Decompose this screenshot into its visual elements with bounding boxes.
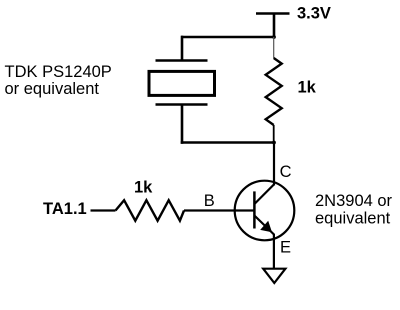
svg-text:E: E <box>280 239 291 257</box>
svg-text:C: C <box>280 163 292 181</box>
wire top branch to piezo <box>181 36 275 39</box>
piezo buzzer PZ1 top plate <box>156 59 208 62</box>
transistor Q1 emitter stroke <box>254 216 274 235</box>
svg-text:1k: 1k <box>134 178 153 196</box>
resistor R1 1k (vertical zigzag) <box>266 58 282 125</box>
piezo buzzer PZ1 body <box>149 71 215 95</box>
wire piezo top stub <box>181 36 184 61</box>
piezo buzzer PZ1 bottom plate <box>156 103 208 106</box>
wire collector node to transistor <box>273 143 275 186</box>
wire piezo bottom stub <box>181 105 184 144</box>
transistor Q1 base bar <box>253 191 256 228</box>
ground symbol <box>263 269 285 283</box>
wire resistor R2 to base <box>184 209 254 211</box>
svg-text:equivalent: equivalent <box>315 209 391 227</box>
transistor Q1 emitter arrowhead <box>260 221 272 232</box>
wire emitter to ground <box>273 234 275 269</box>
wire TA1.1 to resistor R2 <box>91 209 116 211</box>
svg-text:TA1.1: TA1.1 <box>43 200 87 218</box>
wire piezo bottom to collector node <box>181 141 275 144</box>
svg-text:3.3V: 3.3V <box>297 5 331 23</box>
resistor R1 bottom lead <box>273 125 275 143</box>
transistor Q1 body circle <box>235 181 295 241</box>
svg-text:2N3904 or: 2N3904 or <box>315 192 393 210</box>
transistor Q1 collector stroke <box>254 184 274 204</box>
resistor R2 1k (horizontal zigzag) <box>116 200 185 221</box>
svg-text:or equivalent: or equivalent <box>5 80 100 98</box>
svg-text:1k: 1k <box>298 78 317 96</box>
junction at 3.3V rail <box>272 35 276 39</box>
power rail 3.3V <box>256 14 290 38</box>
svg-text:TDK PS1240P: TDK PS1240P <box>5 63 112 81</box>
resistor R1 top lead <box>273 37 275 58</box>
svg-text:B: B <box>204 192 215 210</box>
junction at collector node <box>272 141 276 145</box>
